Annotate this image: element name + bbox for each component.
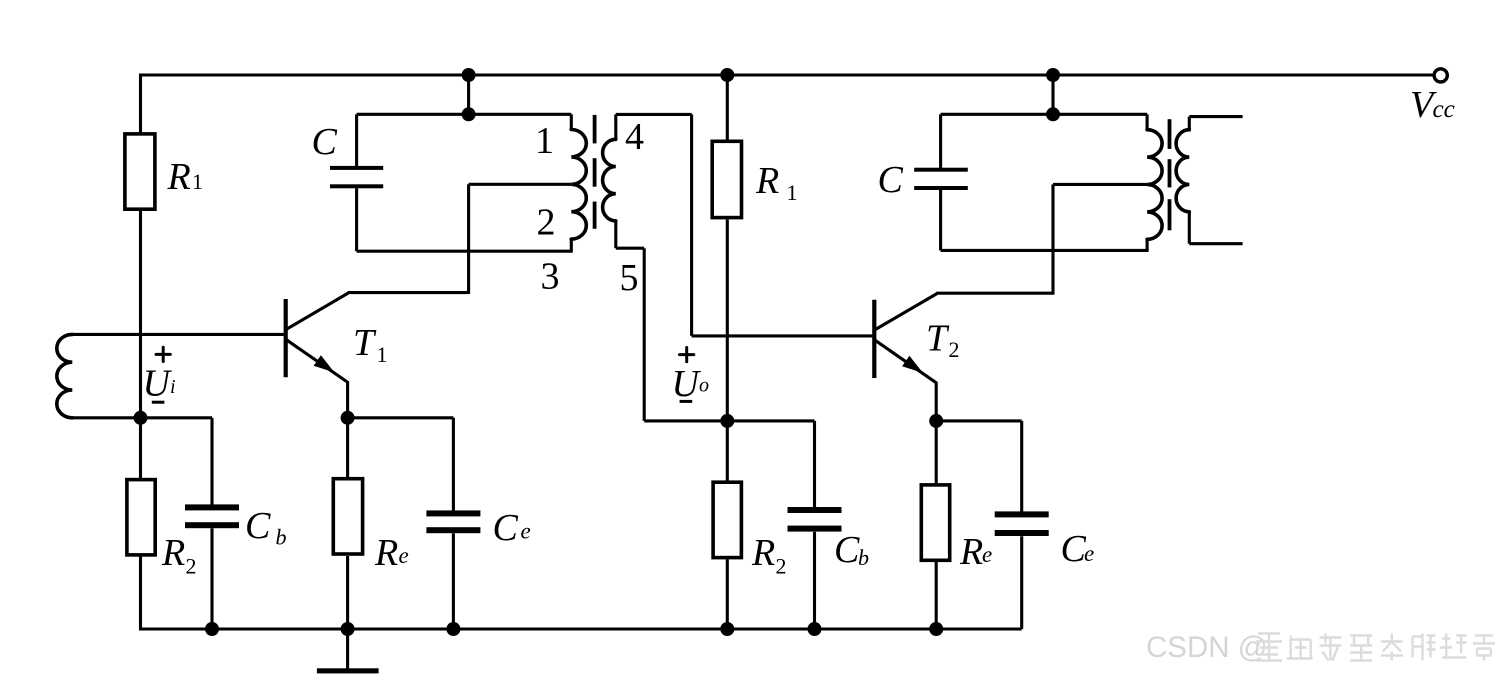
svg-text:b: b <box>276 525 287 550</box>
svg-text:R: R <box>755 160 779 202</box>
svg-text:U: U <box>672 363 702 405</box>
svg-text:e: e <box>399 543 409 568</box>
svg-text:T: T <box>926 318 950 360</box>
svg-text:e: e <box>521 519 531 544</box>
svg-text:T: T <box>353 322 377 364</box>
svg-text:R: R <box>167 156 191 198</box>
svg-text:1: 1 <box>377 342 388 367</box>
svg-text:e: e <box>1084 541 1094 566</box>
svg-text:R: R <box>161 532 185 574</box>
svg-text:C: C <box>493 507 519 549</box>
svg-text:R: R <box>751 532 775 574</box>
svg-text:2: 2 <box>776 554 787 579</box>
svg-text:i: i <box>170 376 176 398</box>
svg-text:1: 1 <box>192 169 203 194</box>
svg-text:e: e <box>982 542 992 567</box>
svg-text:3: 3 <box>541 255 560 297</box>
svg-text:R: R <box>959 531 983 573</box>
svg-text:4: 4 <box>625 116 644 158</box>
svg-text:C: C <box>245 505 271 547</box>
svg-text:5: 5 <box>620 257 639 299</box>
svg-text:U: U <box>143 362 173 404</box>
svg-text:2: 2 <box>949 337 960 362</box>
svg-text:C: C <box>878 159 904 201</box>
svg-text:CSDN @: CSDN @ <box>1146 631 1268 664</box>
svg-text:C: C <box>1061 528 1087 570</box>
svg-text:o: o <box>699 375 709 397</box>
svg-text:2: 2 <box>186 554 197 579</box>
svg-text:C: C <box>834 529 860 571</box>
svg-text:2: 2 <box>537 202 556 244</box>
svg-text:R: R <box>374 532 398 574</box>
svg-text:1: 1 <box>535 120 554 162</box>
svg-text:cc: cc <box>1433 96 1455 123</box>
svg-text:b: b <box>858 545 869 570</box>
svg-text:C: C <box>312 121 338 163</box>
svg-text:1: 1 <box>787 180 798 205</box>
